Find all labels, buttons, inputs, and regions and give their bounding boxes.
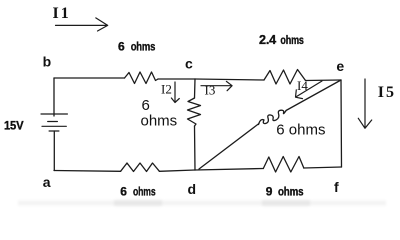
wire R to d [159, 170, 195, 171]
wire b to R top-left [54, 77, 125, 79]
current arrow I5 [358, 79, 371, 128]
current arrow I4 [296, 81, 323, 99]
diagonal wire d to squiggle [199, 124, 259, 170]
svg-text:15V: 15V [4, 119, 24, 133]
resistor R a-d 6 ohms zigzag [121, 163, 160, 172]
current arrow I1 [56, 18, 108, 31]
svg-text:6ohms: 6ohms [120, 185, 156, 199]
wire a to R bottom-left [54, 170, 121, 173]
wire R to c [158, 78, 195, 80]
svg-text:6ohms: 6ohms [118, 40, 156, 54]
resistor R b-c 6 ohms zigzag [125, 72, 159, 84]
svg-text:I3: I3 [205, 83, 216, 98]
diagonal wire squiggle to e [286, 80, 341, 111]
svg-text:f: f [334, 179, 339, 195]
wire b down to battery [53, 78, 55, 116]
resistor R d-e 6 ohms squiggle [259, 110, 287, 124]
svg-text:e: e [336, 58, 344, 74]
wire R down to d [194, 126, 197, 170]
svg-text:6: 6 [142, 97, 150, 114]
current arrow I2 [171, 82, 179, 103]
wire c down to R middle [194, 79, 197, 98]
svg-text:ohms: ohms [141, 113, 178, 130]
resistor R c-d 6 ohms vertical zigzag [188, 98, 201, 126]
wire d to R bottom-right [195, 169, 263, 171]
svg-text:I1: I1 [53, 5, 71, 22]
resistor R c-e 2.4 ohms zigzag [264, 70, 306, 85]
battery V1 15V [41, 114, 67, 131]
current arrow I3 [201, 81, 232, 90]
svg-text:2.4ohms: 2.4ohms [259, 32, 304, 47]
svg-text:b: b [43, 54, 52, 70]
wire e down to f [340, 80, 343, 167]
resistor R d-f 9 ohms zigzag [263, 157, 304, 173]
wire c to R top-right [195, 79, 264, 80]
svg-text:I2: I2 [161, 82, 172, 97]
svg-text:d: d [188, 181, 197, 197]
wire R to e [306, 79, 342, 82]
svg-text:6 ohms: 6 ohms [276, 121, 325, 138]
svg-text:I5: I5 [378, 84, 396, 101]
svg-text:a: a [43, 174, 51, 190]
jpeg ghost band [18, 200, 386, 206]
svg-text:9ohms: 9ohms [266, 185, 304, 199]
wire R to f [304, 167, 342, 168]
wire battery down to a [53, 131, 55, 171]
svg-text:c: c [185, 56, 193, 72]
